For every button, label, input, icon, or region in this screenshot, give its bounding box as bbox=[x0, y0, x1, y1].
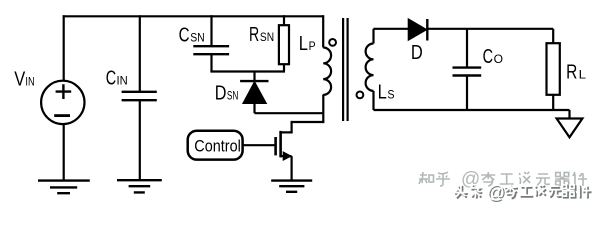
svg-text:P: P bbox=[309, 39, 316, 53]
wire snubber bottom rail bbox=[210, 70, 285, 72]
wire DSN top vertical bbox=[253, 72, 255, 82]
svg-text:C: C bbox=[179, 24, 190, 46]
wire top rail (VIN top to LP top) bbox=[63, 15, 324, 17]
wire CO bottom vertical bbox=[466, 76, 468, 111]
voltage source VIN bbox=[41, 81, 84, 124]
capacitor CIN bbox=[122, 92, 157, 100]
diode D bbox=[409, 19, 428, 41]
label RL bbox=[566, 62, 586, 84]
transistor Q1 (MOSFET) bbox=[276, 121, 292, 181]
svg-text:R: R bbox=[249, 24, 259, 46]
svg-text:C: C bbox=[106, 68, 116, 90]
svg-text:C: C bbox=[483, 46, 493, 68]
wire RL top vertical bbox=[552, 29, 554, 43]
resistor RL bbox=[547, 43, 560, 95]
svg-text:SN: SN bbox=[260, 30, 274, 44]
label CSN bbox=[179, 24, 205, 46]
wire diode cathode to RL top bbox=[427, 28, 553, 30]
wire output ground stub bbox=[568, 110, 570, 119]
label CO bbox=[483, 46, 504, 68]
svg-text:SN: SN bbox=[190, 30, 205, 44]
ground (MOSFET source) bbox=[271, 181, 312, 192]
label CIN bbox=[106, 68, 128, 90]
svg-text:@: @ bbox=[487, 182, 505, 202]
wire VIN bottom vertical bbox=[63, 124, 65, 180]
svg-text:Control: Control bbox=[194, 136, 241, 155]
wire CIN bottom vertical bbox=[139, 100, 141, 180]
polarity dot LP bbox=[329, 39, 336, 46]
wire drain rail upper (DSN to LP bottom) bbox=[255, 112, 324, 114]
svg-text:L: L bbox=[579, 68, 587, 82]
svg-text:O: O bbox=[494, 52, 503, 66]
capacitor CO bbox=[453, 68, 482, 76]
wire CO top vertical bbox=[466, 29, 468, 68]
svg-text:L: L bbox=[299, 33, 308, 55]
wire CIN top vertical bbox=[139, 15, 141, 92]
svg-text:L: L bbox=[378, 82, 387, 104]
svg-text:R: R bbox=[566, 62, 577, 84]
wire drain rail lower (drain to LP bottom) bbox=[292, 121, 324, 123]
wire LP bottom vertical bbox=[322, 95, 324, 124]
svg-text:D: D bbox=[411, 42, 423, 64]
wire gate bbox=[243, 144, 276, 146]
resistor RSN bbox=[279, 25, 289, 64]
ground (CIN) bbox=[117, 180, 162, 192]
ground (VIN) bbox=[38, 181, 90, 194]
svg-text:S: S bbox=[387, 88, 394, 102]
wire DSN bottom vertical bbox=[253, 103, 255, 113]
inductor LP (primary winding) bbox=[323, 15, 331, 95]
wire RSN top vertical bbox=[283, 15, 285, 25]
wire VIN top vertical bbox=[63, 15, 65, 80]
control block bbox=[188, 131, 243, 160]
svg-text:D: D bbox=[215, 83, 227, 105]
wire RSN bottom vertical bbox=[283, 64, 285, 71]
transformer core bbox=[343, 18, 348, 121]
watermark zhihu line bbox=[419, 169, 587, 190]
label RSN bbox=[249, 24, 274, 46]
svg-text:SN: SN bbox=[227, 89, 239, 103]
polarity dot LS bbox=[357, 92, 364, 99]
label LP bbox=[299, 33, 316, 55]
wire CSN top vertical bbox=[210, 15, 212, 46]
svg-text:V: V bbox=[14, 68, 26, 90]
ground (output, open triangle) bbox=[557, 119, 583, 138]
wire RL bottom vertical bbox=[552, 95, 554, 110]
wire secondary top rail bbox=[374, 28, 409, 30]
inductor LS (secondary winding) bbox=[366, 29, 374, 110]
capacitor CSN bbox=[193, 46, 229, 54]
wire CSN bottom vertical bbox=[210, 54, 212, 71]
svg-text:IN: IN bbox=[25, 76, 34, 88]
diode DSN bbox=[240, 81, 268, 103]
watermark toutiao line white face bbox=[454, 182, 590, 202]
watermark toutiao line shadow bbox=[455, 183, 591, 203]
label LS bbox=[378, 82, 395, 104]
svg-text:IN: IN bbox=[117, 76, 128, 88]
wire secondary bottom rail bbox=[374, 109, 570, 111]
label VIN bbox=[14, 68, 34, 90]
label DSN bbox=[215, 83, 239, 105]
